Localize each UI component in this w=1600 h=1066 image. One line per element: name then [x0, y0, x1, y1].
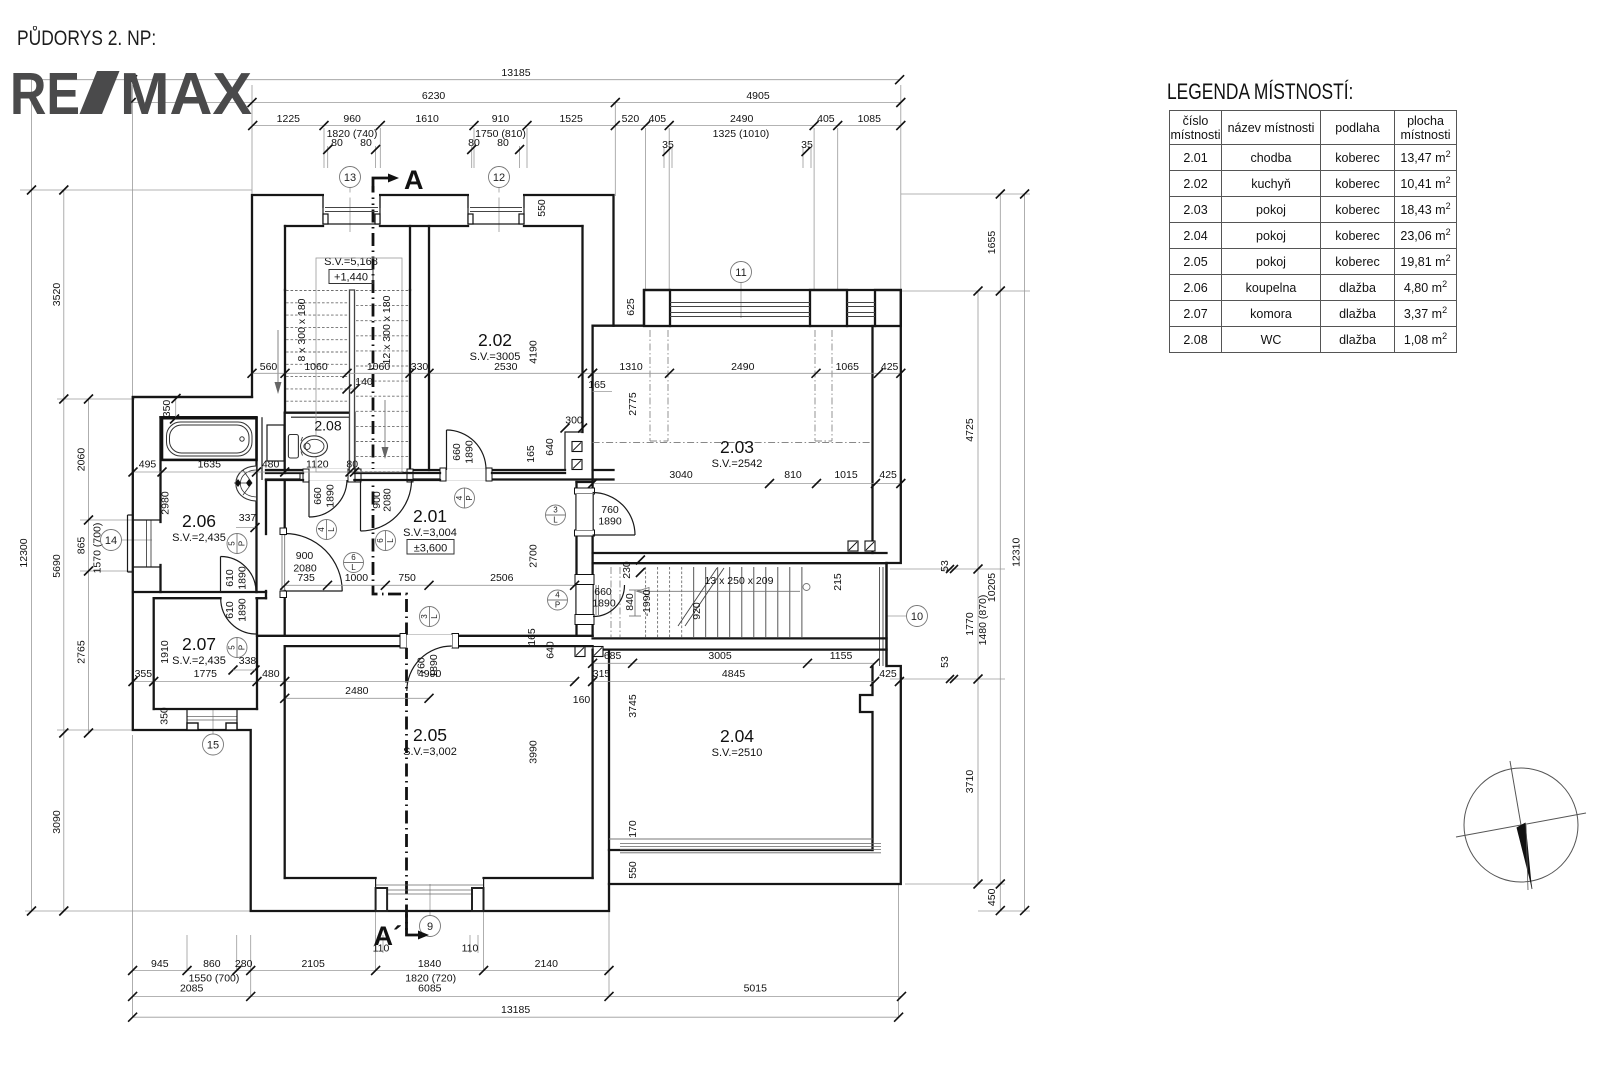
- svg-text:S.V.=3,004: S.V.=3,004: [403, 527, 457, 539]
- svg-text:3710: 3710: [964, 770, 976, 794]
- svg-text:1155: 1155: [830, 650, 853, 662]
- dim row y374 room 2.03: [593, 372, 901, 374]
- svg-text:550: 550: [627, 861, 639, 879]
- svg-text:860: 860: [203, 958, 221, 970]
- svg-text:MAX: MAX: [120, 61, 252, 127]
- left dimension chain col 1 (12300): [31, 80, 33, 911]
- svg-text:685: 685: [604, 650, 622, 662]
- wall 2.06 top: [133, 396, 252, 398]
- lower stair break line: [678, 568, 717, 626]
- svg-text:L: L: [430, 614, 439, 619]
- svg-text:1060: 1060: [304, 361, 328, 373]
- svg-text:4: 4: [317, 527, 326, 532]
- dim row y681 room 2.04: [593, 681, 875, 683]
- svg-text:315: 315: [593, 668, 611, 680]
- dim row y681 (355/1775/480/4990): [133, 681, 575, 683]
- stair treads left flight: [286, 290, 348, 292]
- stair base door opening: [355, 469, 361, 482]
- wall stair hall / 2.04: [593, 637, 887, 639]
- wash basin: [236, 466, 257, 501]
- wall 2.01 / 2.02 (kitchen bottom): [266, 469, 565, 471]
- door hall west (6L big): [281, 534, 283, 591]
- svg-text:1085: 1085: [858, 113, 882, 125]
- door WC 2.08 (4L): [308, 480, 310, 517]
- svg-text:1775: 1775: [194, 668, 218, 680]
- svg-text:1890: 1890: [592, 598, 616, 610]
- svg-text:1325 (1010): 1325 (1010): [713, 128, 770, 140]
- svg-text:3040: 3040: [669, 469, 693, 481]
- window on right (10): [879, 567, 881, 666]
- door hall->stair hall (4P): [595, 585, 597, 615]
- top dimension chain row 2 (6230/4905): [131, 102, 901, 104]
- kitchen right wall inner + partition 2.02/2.03: [581, 226, 583, 432]
- svg-text:2490: 2490: [730, 113, 754, 125]
- svg-text:1840: 1840: [418, 958, 442, 970]
- svg-text:2105: 2105: [301, 958, 325, 970]
- right dimension chain col B (1655/10205/450): [999, 194, 1001, 911]
- svg-text:1570 (700): 1570 (700): [92, 523, 104, 574]
- left dimension chain col 2: [63, 190, 65, 911]
- outer wall outline: [133, 195, 901, 911]
- dim row y698 (2480): [285, 697, 429, 699]
- svg-text:425: 425: [879, 668, 897, 680]
- svg-text:2980: 2980: [160, 491, 172, 515]
- svg-text:6: 6: [376, 538, 385, 543]
- door hall->2.03 (3L): [593, 534, 635, 536]
- 2.04 right wall jog: [860, 666, 873, 850]
- svg-text:2.07: 2.07: [182, 634, 216, 654]
- 2.07 bottom window bay: [187, 716, 237, 718]
- svg-text:3090: 3090: [51, 810, 63, 834]
- svg-text:405: 405: [817, 113, 835, 125]
- svg-text:960: 960: [343, 113, 361, 125]
- svg-text:1890: 1890: [464, 440, 476, 464]
- svg-text:3520: 3520: [51, 283, 63, 307]
- svg-text:L: L: [351, 563, 356, 572]
- grid bubble 12: [498, 188, 500, 232]
- svg-text:4725: 4725: [964, 418, 976, 442]
- svg-text:660: 660: [594, 586, 612, 598]
- svg-text:330: 330: [411, 361, 429, 373]
- svg-text:337: 337: [239, 512, 257, 524]
- svg-text:±3,600: ±3,600: [414, 543, 448, 555]
- svg-text:1655: 1655: [986, 231, 998, 255]
- svg-text:4990: 4990: [418, 668, 442, 680]
- door opening hall->stair hall: [575, 575, 594, 585]
- svg-text:1480 (870): 1480 (870): [977, 595, 989, 646]
- hall 2.01 right wall (to 2.03 / stair hall): [575, 482, 577, 636]
- svg-text:425: 425: [881, 361, 899, 373]
- svg-text:8 x 300 x 180: 8 x 300 x 180: [296, 298, 308, 361]
- wall 2.01 / 2.05: [257, 635, 593, 637]
- svg-text:13: 13: [344, 172, 356, 184]
- svg-text:2.06: 2.06: [182, 511, 216, 531]
- 2.05 bottom wall + window bay: [285, 877, 376, 879]
- svg-text:170: 170: [627, 820, 639, 838]
- svg-text:350: 350: [159, 707, 171, 725]
- compass (north arrow): [1464, 768, 1578, 882]
- svg-text:355: 355: [135, 668, 153, 680]
- svg-text:11: 11: [735, 267, 746, 279]
- svg-text:735: 735: [297, 572, 315, 584]
- svg-text:215: 215: [832, 573, 844, 591]
- svg-text:S.V.=2,435: S.V.=2,435: [172, 655, 226, 667]
- roof overhang dash-dot in 2.03: [649, 330, 651, 441]
- svg-text:12300: 12300: [18, 538, 30, 567]
- top dimension chain row 3: [253, 125, 901, 127]
- svg-text:165: 165: [588, 379, 606, 391]
- svg-text:5: 5: [228, 645, 237, 650]
- legend table: [1169, 110, 1457, 353]
- dim row y373 stair/kitchen: [252, 372, 593, 374]
- svg-text:S.V.=3,002: S.V.=3,002: [403, 746, 457, 758]
- dim row y585 hall: [285, 584, 575, 586]
- stair room thin outline: [316, 258, 402, 472]
- svg-text:9: 9: [427, 921, 433, 933]
- svg-text:280: 280: [235, 958, 253, 970]
- grid bubble 9: [429, 884, 431, 916]
- svg-text:660: 660: [312, 487, 324, 505]
- NE bay of room 2.03 : piers: [644, 290, 670, 326]
- svg-text:160: 160: [573, 694, 591, 706]
- door 2.06 (5P upper): [220, 557, 222, 593]
- dim row y483 room 2.03 low: [593, 483, 901, 485]
- svg-text:P: P: [555, 601, 560, 610]
- svg-text:13185: 13185: [501, 67, 530, 79]
- lower stair risers: [645, 567, 647, 637]
- svg-text:P: P: [238, 541, 247, 546]
- dim row y663 room 2.04: [593, 662, 875, 664]
- svg-text:405: 405: [649, 113, 667, 125]
- bathroom 2.06 left wall inner + window: [159, 417, 161, 522]
- svg-text:2700: 2700: [528, 544, 540, 568]
- svg-text:4: 4: [455, 495, 464, 500]
- svg-text:S.V.=3005: S.V.=3005: [470, 351, 521, 363]
- svg-text:A: A: [404, 165, 424, 195]
- svg-text:450: 450: [986, 888, 998, 906]
- top window bay room 12: [468, 196, 524, 224]
- svg-text:6230: 6230: [422, 90, 446, 102]
- WC 2.08 walls: [285, 413, 355, 473]
- section mark A' (bottom): [407, 914, 421, 935]
- lower stair dash-dot opening: [610, 567, 612, 637]
- svg-text:80: 80: [331, 137, 343, 149]
- svg-text:5690: 5690: [51, 554, 63, 578]
- grid bubble 14: [122, 539, 153, 541]
- svg-text:6085: 6085: [418, 982, 442, 994]
- svg-text:165: 165: [526, 628, 538, 646]
- door opening hall->2.03: [575, 488, 595, 494]
- 2.07 walls: [153, 598, 155, 709]
- svg-text:4845: 4845: [722, 668, 746, 680]
- svg-text:2765: 2765: [76, 640, 88, 664]
- grid bubble 15: [212, 710, 214, 734]
- door opening 2.01->2.05: [400, 634, 407, 649]
- bathtub: [162, 418, 257, 460]
- section line A-A': [373, 186, 407, 930]
- svg-text:12 x 300 x 180: 12 x 300 x 180: [381, 295, 393, 364]
- svg-text:35: 35: [801, 139, 813, 151]
- svg-text:1910: 1910: [159, 640, 171, 664]
- svg-text:1890: 1890: [237, 598, 249, 622]
- svg-text:2085: 2085: [180, 982, 204, 994]
- svg-text:165: 165: [525, 445, 537, 463]
- svg-text:P: P: [465, 495, 474, 500]
- right dimension chain col A (4725/1770/3710): [977, 291, 979, 884]
- inner wall faces: stair tower + kitchen top: [285, 225, 323, 227]
- grid bubble 10: [886, 615, 907, 617]
- svg-text:2775: 2775: [627, 392, 639, 416]
- bottom dimension chain row 1: [133, 970, 609, 972]
- svg-text:S.V.=2510: S.V.=2510: [712, 747, 763, 759]
- svg-text:520: 520: [622, 113, 640, 125]
- svg-text:1890: 1890: [325, 484, 337, 508]
- svg-text:4: 4: [555, 591, 560, 600]
- svg-text:610: 610: [224, 569, 236, 587]
- room 2.03 top inner face: [670, 325, 810, 327]
- svg-text:2490: 2490: [731, 361, 755, 373]
- niche next to WC: [267, 425, 284, 461]
- stair railing: [350, 290, 355, 472]
- svg-text:625: 625: [625, 298, 637, 316]
- svg-text:6: 6: [351, 553, 356, 562]
- svg-text:15: 15: [207, 739, 219, 751]
- svg-text:1610: 1610: [415, 113, 439, 125]
- svg-text:+1,440: +1,440: [334, 272, 368, 284]
- svg-text:4905: 4905: [746, 90, 770, 102]
- WC door opening: [303, 469, 309, 482]
- stair treads right flight: [356, 290, 409, 292]
- svg-text:1000: 1000: [345, 572, 369, 584]
- svg-text:14: 14: [105, 535, 117, 547]
- svg-text:A´: A´: [374, 921, 403, 951]
- svg-text:1065: 1065: [836, 361, 860, 373]
- door 2.07 (5P lower): [256, 598, 258, 634]
- svg-text:P: P: [238, 645, 247, 650]
- svg-text:3745: 3745: [627, 694, 639, 718]
- svg-text:900: 900: [296, 550, 314, 562]
- svg-text:2.05: 2.05: [413, 725, 447, 745]
- svg-text:2060: 2060: [76, 448, 88, 472]
- legend heading: [1167, 79, 1353, 105]
- svg-text:910: 910: [492, 113, 510, 125]
- svg-text:80: 80: [497, 137, 509, 149]
- svg-text:35: 35: [662, 139, 674, 151]
- svg-text:53: 53: [939, 560, 951, 572]
- svg-text:865: 865: [76, 537, 88, 555]
- hall top wall: [266, 472, 303, 474]
- svg-text:2.08: 2.08: [314, 418, 341, 434]
- stair direction arrows: [277, 330, 279, 390]
- svg-text:L: L: [327, 527, 336, 532]
- lower stair walk line: [637, 590, 800, 592]
- svg-text:4190: 4190: [528, 340, 540, 364]
- svg-text:2506: 2506: [490, 572, 514, 584]
- 840 dim inside stairs: [634, 590, 636, 616]
- wall 2.05 / 2.04: [591, 650, 593, 878]
- svg-text:S.V.=2,435: S.V.=2,435: [172, 532, 226, 544]
- right dimension chain col C (12310): [1024, 194, 1026, 911]
- door kitchen (4P): [446, 430, 448, 470]
- wall 2.03 / stair hall: [593, 552, 887, 554]
- svg-text:640: 640: [544, 438, 556, 456]
- svg-text:13185: 13185: [501, 1004, 530, 1016]
- toilet: [288, 435, 298, 459]
- svg-text:80: 80: [360, 137, 372, 149]
- svg-text:3: 3: [553, 506, 558, 515]
- room 2.03 right inner face: [871, 326, 873, 553]
- door 2.01->2.05 (3L): [407, 646, 452, 691]
- svg-text:750: 750: [398, 572, 416, 584]
- wall 2.06/2.07: [133, 591, 257, 593]
- grid bubble 13: [349, 188, 351, 232]
- grid bubble 11: [740, 283, 742, 318]
- svg-text:L: L: [553, 516, 558, 525]
- svg-text:5015: 5015: [744, 982, 768, 994]
- svg-text:2.02: 2.02: [478, 330, 512, 350]
- svg-text:1890: 1890: [237, 566, 249, 590]
- svg-text:1060: 1060: [367, 361, 391, 373]
- svg-text:480: 480: [262, 459, 280, 471]
- section mark A (top): [373, 178, 390, 196]
- svg-text:810: 810: [784, 469, 802, 481]
- svg-text:480: 480: [262, 668, 280, 680]
- svg-text:640: 640: [545, 641, 557, 659]
- svg-text:1770: 1770: [964, 612, 976, 636]
- svg-text:495: 495: [139, 459, 157, 471]
- top dimension chain row 1 (13185): [32, 79, 900, 81]
- svg-text:1525: 1525: [559, 113, 583, 125]
- left dimension chain col 3: [88, 399, 90, 733]
- kitchen SE shaft box: [565, 432, 583, 470]
- svg-text:5: 5: [228, 541, 237, 546]
- svg-text:1015: 1015: [834, 469, 858, 481]
- svg-text:3: 3: [420, 614, 429, 619]
- svg-text:1310: 1310: [619, 361, 643, 373]
- svg-text:1635: 1635: [198, 459, 222, 471]
- svg-text:2.04: 2.04: [720, 726, 754, 746]
- svg-text:80: 80: [346, 459, 358, 471]
- svg-text:425: 425: [879, 469, 897, 481]
- svg-text:2080: 2080: [382, 488, 394, 512]
- svg-text:840: 840: [624, 593, 636, 611]
- svg-text:338: 338: [239, 655, 257, 667]
- top window bay room 13: [323, 196, 380, 224]
- bottom dimension chain row 4 (13185): [133, 1016, 899, 1018]
- svg-text:13 x 250 x 209: 13 x 250 x 209: [705, 575, 774, 587]
- svg-text:550: 550: [536, 199, 548, 217]
- door stair base (6L): [360, 480, 362, 531]
- svg-text:560: 560: [260, 361, 278, 373]
- extension lines: [132, 85, 134, 397]
- svg-text:3990: 3990: [528, 740, 540, 764]
- svg-text:660: 660: [451, 443, 463, 461]
- svg-text:920: 920: [691, 602, 703, 620]
- svg-text:1890: 1890: [598, 516, 622, 528]
- svg-text:1120: 1120: [306, 459, 329, 471]
- svg-text:610: 610: [224, 601, 236, 619]
- svg-text:2.03: 2.03: [720, 437, 754, 457]
- svg-text:S.V.=2542: S.V.=2542: [712, 458, 763, 470]
- svg-text:3005: 3005: [708, 650, 732, 662]
- svg-text:230: 230: [621, 561, 633, 579]
- svg-text:RE: RE: [10, 61, 80, 127]
- dim row y472 2.06/2.08: [133, 471, 355, 473]
- svg-text:53: 53: [939, 656, 951, 668]
- wall 2.06 right column: [255, 417, 257, 592]
- kitchen door opening: [440, 468, 446, 481]
- svg-text:L: L: [386, 538, 395, 543]
- svg-text:945: 945: [151, 958, 169, 970]
- NE bay glazing: [670, 302, 810, 304]
- svg-text:12: 12: [493, 172, 505, 184]
- svg-text:760: 760: [601, 504, 619, 516]
- svg-text:2.01: 2.01: [413, 506, 447, 526]
- svg-text:110: 110: [462, 943, 479, 955]
- bottom dimension chain row 3 (2085/6085/5015): [133, 995, 902, 997]
- wall stair/kitchen (330): [409, 226, 411, 290]
- RE/MAX logo: [0, 0, 300, 130]
- svg-text:2140: 2140: [535, 958, 559, 970]
- svg-text:-1990: -1990: [641, 589, 653, 616]
- page title: [17, 27, 156, 51]
- svg-text:2480: 2480: [345, 685, 369, 697]
- svg-text:12310: 12310: [1011, 538, 1023, 567]
- svg-text:10: 10: [911, 611, 923, 623]
- 2.04 bottom inner + window: [609, 849, 873, 851]
